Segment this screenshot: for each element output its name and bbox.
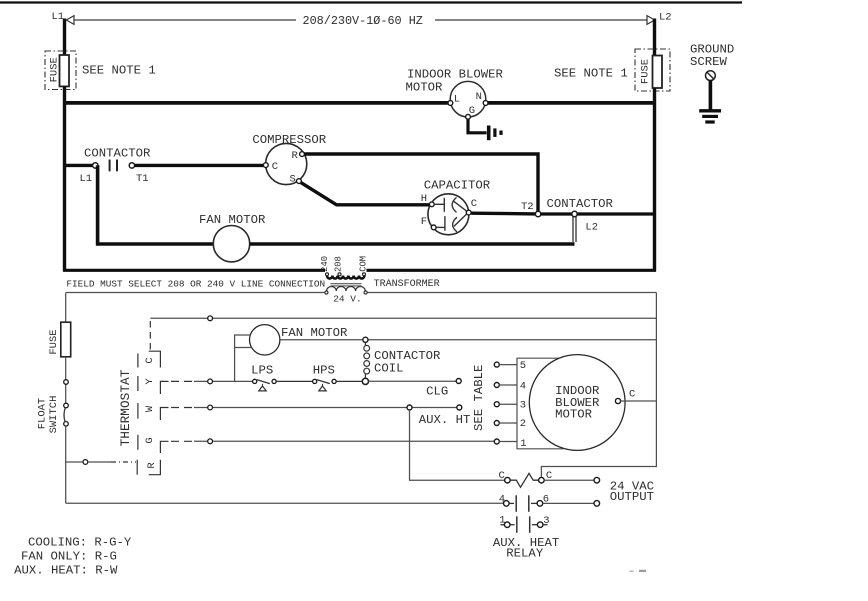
svg-text:FAN ONLY: R-G: FAN ONLY: R-G (21, 550, 117, 564)
node on Y line (208, 379, 213, 384)
wire C dashed drop (149, 321, 151, 351)
wire T1 to compressor C (135, 164, 266, 167)
wire C line (150, 317, 656, 319)
svg-text:S: S (290, 173, 296, 185)
svg-text:FUSE: FUSE (48, 329, 60, 354)
svg-text:COM: COM (359, 256, 369, 272)
terminal G of M1 (466, 114, 471, 119)
transformer primary winding (327, 276, 364, 279)
LPS switch (253, 379, 257, 383)
contact bars of K1 (109, 160, 111, 172)
wire W line (194, 407, 457, 409)
svg-text:FAN MOTOR: FAN MOTOR (281, 326, 348, 340)
svg-text:SEE NOTE 1: SEE NOTE 1 (554, 67, 628, 81)
svg-text:COOLING: R-G-Y: COOLING: R-G-Y (28, 536, 132, 550)
terminal F of capacitor (431, 225, 436, 230)
svg-text:RELAY: RELAY (506, 547, 544, 561)
wire L1 below fuse (63, 86, 66, 271)
relay contact 6 (528, 495, 530, 512)
svg-text:G: G (144, 437, 156, 443)
svg-text:F: F (421, 216, 427, 228)
speed tap terminal 5 (494, 362, 499, 367)
svg-text:THERMOSTAT: THERMOSTAT (118, 369, 133, 446)
terminal H of capacitor (429, 202, 434, 207)
wire 24v secondary right (367, 292, 656, 294)
svg-text:SEE TABLE: SEE TABLE (472, 365, 486, 431)
svg-text:L2: L2 (585, 222, 598, 234)
svg-text:208/230V-1Ø-60 HZ: 208/230V-1Ø-60 HZ (303, 14, 423, 28)
wire G lead of M1 (468, 119, 487, 133)
svg-text:CONTACTOR: CONTACTOR (84, 147, 151, 161)
ground symbol (699, 109, 721, 112)
node on G line (208, 439, 213, 444)
capacitor internal plates (434, 203, 444, 205)
transformer primary terminal 240 (326, 273, 329, 276)
faint artifact marks (630, 571, 634, 573)
chassis ground symbol (487, 126, 491, 141)
wire coil node to CLG terminal (369, 380, 457, 382)
speed tap terminal 3 (494, 402, 499, 407)
svg-text:C: C (629, 389, 635, 401)
svg-text:FIELD MUST SELECT 208 OR 240 V: FIELD MUST SELECT 208 OR 240 V LINE CONN… (66, 278, 325, 289)
node T1 terminal of K1 (129, 163, 134, 168)
svg-text:Y: Y (144, 378, 156, 385)
svg-text:G: G (469, 105, 475, 117)
wire L1 to contact (63, 164, 93, 167)
ground screw head (706, 71, 716, 81)
float switch terminal bottom (64, 422, 69, 427)
svg-text:4: 4 (520, 381, 526, 393)
wire HPS to coil node (336, 380, 362, 382)
svg-text:208: 208 (333, 256, 343, 272)
contactor coil winding (364, 342, 366, 345)
svg-text:LPS: LPS (251, 363, 273, 377)
wire fuse to float switch (65, 357, 67, 403)
svg-text:N: N (476, 91, 482, 103)
wire bottom bus left of transformer (63, 269, 325, 272)
wire right side drop (541, 293, 656, 478)
terminal AUX.HT (457, 405, 462, 410)
wire Y line (194, 380, 252, 382)
terminal N of M1 (483, 101, 488, 106)
wire M2 C lead (621, 400, 657, 402)
svg-text:CONTACTOR: CONTACTOR (547, 197, 614, 211)
svg-text:FAN MOTOR: FAN MOTOR (199, 213, 266, 227)
wire Y dashes (171, 380, 194, 382)
wire L1 node drop to fan motor line (98, 165, 214, 244)
svg-text:OUTPUT: OUTPUT (610, 490, 654, 504)
terminal C of M2 (615, 398, 620, 403)
wire bottom bus right of transformer (367, 269, 657, 272)
float switch blade (64, 408, 65, 421)
svg-text:L2: L2 (659, 12, 672, 24)
compressor body (266, 143, 307, 184)
fuse F1 body (60, 55, 70, 86)
svg-text:5: 5 (520, 360, 526, 372)
relay contact C right (539, 477, 545, 483)
svg-text:T2: T2 (521, 201, 534, 213)
wire fan motor to contact drop (250, 242, 575, 246)
wire fan motor lead right (280, 339, 657, 341)
svg-text:R: R (146, 462, 158, 469)
node L2 side contact (572, 211, 577, 216)
float switch terminal top (64, 403, 69, 408)
svg-text:C: C (499, 470, 505, 482)
wire W dashes (171, 407, 194, 409)
wire phase line right (435, 19, 647, 21)
transformer secondary terminals (325, 291, 328, 294)
transformer primary terminal 208 (338, 273, 341, 276)
svg-text:SEE NOTE 1: SEE NOTE 1 (82, 64, 156, 78)
svg-text:240: 240 (320, 256, 330, 272)
svg-text:L1: L1 (80, 173, 93, 185)
svg-text:L: L (454, 94, 460, 106)
wire to 24vac terminal lower (543, 502, 594, 504)
svg-text:TRANSFORMER: TRANSFORMER (374, 279, 440, 290)
svg-text:HPS: HPS (313, 363, 335, 377)
node W junction (407, 405, 412, 410)
node L1 arrowhead (66, 16, 74, 25)
wire G dashes (171, 440, 194, 442)
fuse F1 dash-dot box (45, 51, 76, 90)
wire L1 drop from arrow (63, 19, 66, 56)
terminal L of M1 (448, 101, 453, 106)
motor M1 indoor blower body (450, 81, 486, 117)
wire G line to tap 1 (194, 440, 495, 442)
wire hollow drop from contact node to fan line (572, 217, 574, 242)
node on left wire (64, 380, 69, 385)
svg-text:SCREW: SCREW (690, 55, 728, 69)
transformer core (331, 283, 362, 285)
relay contact 3 (529, 516, 531, 533)
svg-text:3: 3 (520, 399, 526, 411)
svg-text:COIL: COIL (374, 362, 404, 376)
motor M2 indoor blower body (529, 355, 625, 451)
wire L2 drop (653, 19, 656, 56)
speed tap terminal 4 (494, 383, 499, 388)
speed tap terminal 1 (494, 439, 499, 444)
transformer primary terminal COM (363, 273, 366, 276)
node L1 terminal of K1 (93, 163, 98, 168)
wire capacitor C to T2 node (471, 211, 535, 215)
terminal R of compressor (300, 152, 305, 157)
wire aux heat feed (410, 410, 505, 480)
speed tap box (517, 358, 564, 449)
wire compressor R to T2 node (304, 154, 538, 212)
wire to 24vac terminal (544, 479, 594, 481)
fuse F2 dash-dot box (635, 49, 670, 91)
svg-text:C: C (471, 198, 477, 210)
wire phase line left (74, 19, 296, 21)
node on W line (208, 405, 213, 410)
svg-text:MOTOR: MOTOR (555, 408, 593, 422)
node coil bottom (362, 378, 368, 384)
terminal C of capacitor (466, 210, 471, 215)
wire T2 to contact node (541, 212, 572, 215)
transformer secondary winding (327, 287, 366, 292)
svg-text:R: R (292, 150, 299, 162)
fuse F2 body (653, 56, 663, 89)
fuse F3 body (61, 322, 71, 357)
svg-text:T1: T1 (136, 173, 149, 185)
terminal S of compressor (297, 179, 302, 184)
capacitor body (428, 194, 469, 235)
svg-text:FUSE: FUSE (640, 59, 652, 84)
wire float switch down (65, 426, 67, 503)
svg-text:MOTOR: MOTOR (406, 81, 444, 95)
wire fan motor leads left (235, 335, 251, 381)
terminal C of compressor (263, 163, 268, 168)
wire lower left drop to fuse (65, 293, 67, 323)
wire R branch solid (88, 461, 111, 463)
svg-text:24 V.: 24 V. (333, 293, 362, 304)
svg-text:C: C (144, 357, 156, 363)
wire main bus left segment (63, 101, 450, 105)
svg-text:W: W (144, 405, 156, 412)
svg-text:CAPACITOR: CAPACITOR (424, 179, 491, 193)
node T2 (535, 211, 540, 216)
wire compressor S to capacitor H (301, 183, 429, 205)
wire LPS to HPS (276, 380, 312, 382)
wire R branch (66, 461, 83, 463)
thermostat left border dashes (137, 354, 139, 368)
node on C line (208, 316, 213, 321)
relay heater zigzag (510, 473, 538, 487)
wire R branch dash-dot (111, 461, 136, 463)
svg-text:SWITCH: SWITCH (48, 396, 60, 434)
svg-text:L1: L1 (52, 11, 65, 23)
wire bottom of box to contact 4 (66, 502, 504, 504)
terminal CLG (456, 379, 461, 384)
svg-text:1: 1 (520, 438, 526, 450)
node coil top (363, 337, 368, 342)
speed tap terminal 2 (494, 421, 499, 426)
svg-text:AUX. HEAT: R-W: AUX. HEAT: R-W (14, 563, 118, 577)
wire contact node to L2 (577, 212, 656, 215)
wire L2 below fuse (653, 88, 656, 271)
node R branch (83, 460, 88, 465)
svg-text:CLG: CLG (426, 384, 448, 398)
wire ground screw stem (709, 80, 713, 110)
fan motor upper body (213, 226, 249, 262)
wire main bus right segment (486, 101, 656, 105)
svg-text:AUX. HT: AUX. HT (419, 413, 471, 427)
terminal 24vac bottom (594, 501, 600, 507)
terminal 24vac top (594, 477, 600, 483)
node L2 arrowhead (647, 16, 655, 25)
svg-text:H: H (421, 193, 427, 205)
svg-text:FLOAT: FLOAT (37, 398, 49, 430)
svg-text:INDOOR BLOWER: INDOOR BLOWER (407, 68, 504, 82)
fan motor lower body (250, 325, 280, 355)
svg-text:C: C (272, 161, 278, 173)
svg-text:2: 2 (520, 418, 526, 430)
HPS switch (313, 379, 317, 383)
wire top border line (0, 1, 742, 3)
wire 24v secondary left (66, 292, 325, 294)
